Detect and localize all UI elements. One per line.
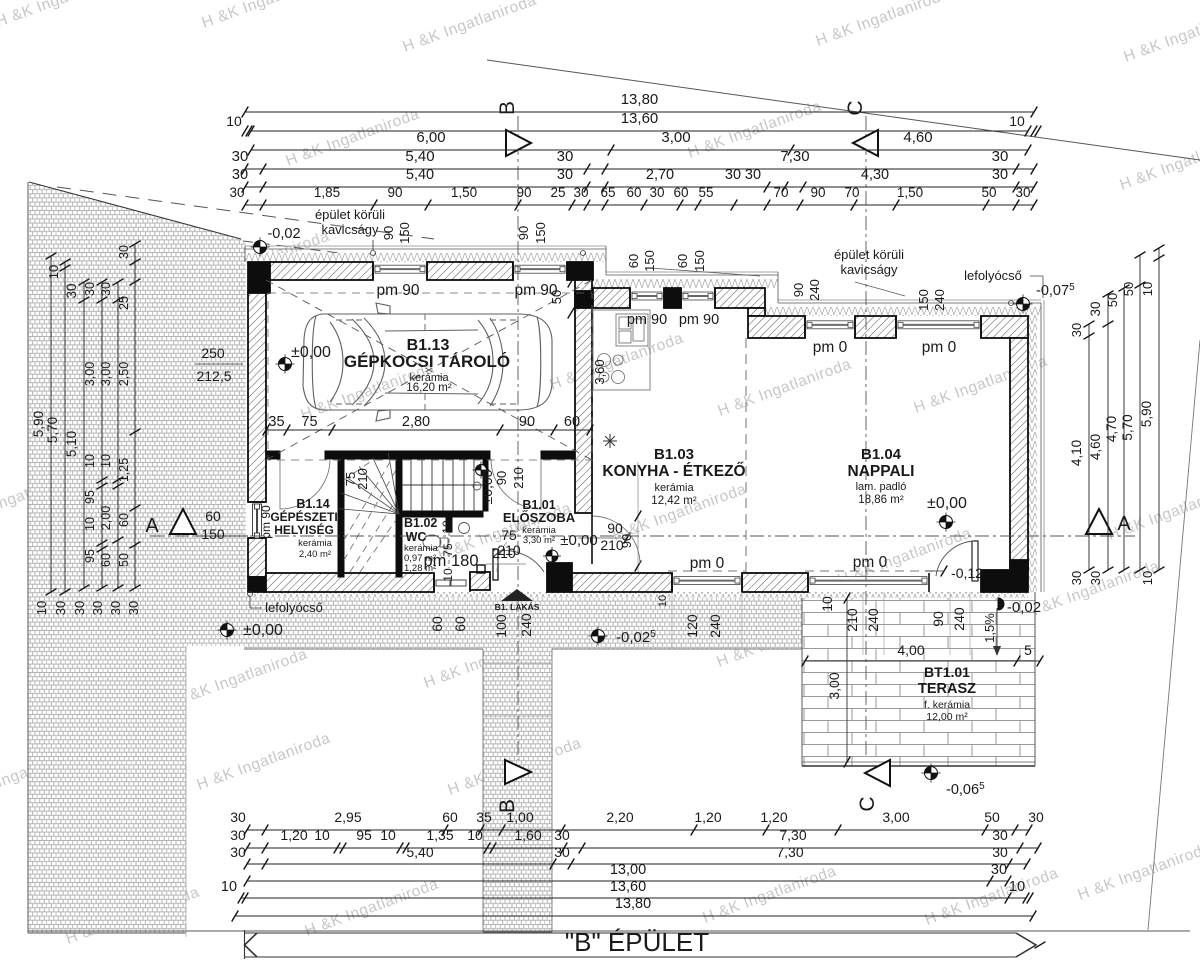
- step wall kitchen-living: [748, 308, 765, 316]
- kitchen cabinet edge line: [637, 462, 639, 572]
- left area boundary lines: [29, 182, 241, 239]
- svg-text:BT1.01: BT1.01: [924, 664, 970, 680]
- svg-text:150: 150: [642, 250, 657, 272]
- svg-text:4,30: 4,30: [861, 167, 889, 183]
- svg-text:1,60: 1,60: [514, 827, 541, 843]
- svg-text:pm 90: pm 90: [376, 282, 419, 299]
- svg-text:60: 60: [452, 616, 468, 632]
- svg-text:3,00: 3,00: [826, 672, 842, 699]
- svg-text:5,40: 5,40: [406, 167, 434, 183]
- svg-text:2,70: 2,70: [646, 167, 674, 183]
- svg-text:TERASZ: TERASZ: [918, 681, 976, 697]
- svg-text:10: 10: [819, 596, 835, 612]
- svg-text:10: 10: [46, 265, 61, 279]
- car: [303, 303, 552, 421]
- svg-text:30: 30: [1028, 809, 1044, 825]
- svg-text:60: 60: [626, 254, 641, 268]
- terrace paving (big brick texture): [802, 592, 1035, 766]
- entrance sidelight pm180: [433, 573, 435, 592]
- svg-text:13,00: 13,00: [610, 862, 646, 878]
- garage interior dimension chain: [266, 429, 590, 431]
- svg-text:±0,00: ±0,00: [927, 495, 967, 512]
- svg-text:B1.14: B1.14: [296, 497, 329, 511]
- svg-text:90: 90: [381, 226, 396, 240]
- svg-text:épület körüli: épület körüli: [834, 247, 904, 262]
- projection lines terrace: [862, 592, 864, 655]
- svg-text:90: 90: [494, 471, 509, 485]
- svg-text:50: 50: [1121, 282, 1136, 296]
- svg-text:3,00: 3,00: [882, 809, 909, 825]
- svg-text:4,60: 4,60: [1088, 434, 1103, 460]
- svg-text:lefolyócső: lefolyócső: [265, 600, 323, 615]
- svg-text:1,5%: 1,5%: [982, 613, 997, 643]
- svg-text:WC: WC: [406, 530, 427, 544]
- top dimension chains: [245, 111, 1034, 113]
- svg-text:10: 10: [440, 520, 454, 534]
- stairwell right wall: [483, 459, 488, 511]
- svg-text:GÉPKOCSI TÁROLÓ: GÉPKOCSI TÁROLÓ: [344, 352, 510, 371]
- garage left exterior wall: [248, 293, 266, 502]
- svg-text:150: 150: [916, 289, 931, 311]
- toilet: [423, 535, 441, 549]
- svg-text:10: 10: [380, 827, 396, 843]
- svg-text:60: 60: [673, 185, 688, 200]
- bottom exterior wall: lower-left block: [266, 573, 434, 592]
- svg-text:10: 10: [99, 454, 113, 468]
- elevation marker eloszoba +-0,00: [543, 547, 561, 565]
- svg-text:1,35: 1,35: [426, 827, 453, 843]
- svg-text:30: 30: [53, 601, 68, 615]
- svg-text:30: 30: [232, 167, 248, 183]
- WC right wall: [446, 517, 452, 532]
- svg-text:30: 30: [126, 601, 141, 615]
- svg-text:pm 0: pm 0: [922, 339, 957, 356]
- svg-text:2,00: 2,00: [99, 506, 113, 530]
- svg-text:60: 60: [99, 553, 113, 567]
- entrance walkway: [483, 594, 552, 932]
- svg-text:-0,02: -0,02: [267, 226, 300, 242]
- kitchen-living axis dashed: [745, 338, 747, 572]
- svg-text:30: 30: [557, 167, 573, 183]
- svg-text:10: 10: [441, 568, 455, 582]
- hallway bottom window (pm 0): [671, 573, 673, 592]
- svg-text:30: 30: [230, 827, 246, 843]
- svg-text:10: 10: [1009, 879, 1025, 895]
- svg-text:10: 10: [314, 827, 330, 843]
- elevation marker bottom +-0,00: [218, 621, 237, 640]
- under-stair dashed lines in gepeszeti: [344, 462, 396, 572]
- svg-text:30: 30: [1088, 301, 1103, 316]
- svg-text:pm 0: pm 0: [853, 554, 888, 571]
- svg-text:120: 120: [684, 614, 700, 638]
- svg-text:75: 75: [501, 527, 517, 543]
- svg-text:30: 30: [232, 148, 249, 165]
- svg-text:50: 50: [981, 185, 996, 200]
- svg-text:240: 240: [807, 279, 822, 301]
- svg-text:7,30: 7,30: [776, 844, 803, 860]
- svg-text:30: 30: [992, 844, 1008, 860]
- elevation marker nappali +-0,00: [937, 513, 956, 532]
- svg-text:25: 25: [550, 185, 565, 200]
- svg-text:210: 210: [844, 608, 860, 632]
- svg-text:35: 35: [268, 414, 284, 430]
- garage dashed perimeter: [268, 293, 592, 460]
- boiler symbol (snowflake): [603, 434, 617, 448]
- svg-text:kavicságy: kavicságy: [321, 222, 379, 237]
- garage window 1 (pm 90): [372, 262, 374, 280]
- svg-text:KONYHA - ÉTKEZŐ: KONYHA - ÉTKEZŐ: [602, 462, 745, 480]
- dashed site boundary continuing to building corner: [57, 187, 434, 239]
- elevation marker top-left -0,02: [251, 238, 270, 257]
- svg-text:70: 70: [844, 185, 859, 200]
- kitchen counter with sink: [593, 310, 650, 390]
- svg-text:210: 210: [497, 542, 521, 558]
- garage window 2 (pm 90): [512, 262, 514, 280]
- svg-text:240: 240: [707, 614, 723, 638]
- svg-text:30: 30: [83, 282, 97, 296]
- svg-text:30: 30: [229, 185, 244, 200]
- svg-text:A: A: [145, 515, 159, 537]
- svg-text:1,20: 1,20: [760, 809, 787, 825]
- svg-text:30: 30: [230, 844, 246, 860]
- svg-text:12,00 m²: 12,00 m²: [926, 711, 968, 723]
- svg-text:10: 10: [657, 595, 669, 607]
- section marker B top: [506, 130, 531, 156]
- gravel strip below building: [244, 594, 802, 649]
- svg-text:5,70: 5,70: [1120, 414, 1135, 440]
- right dimension chains: [1088, 324, 1090, 570]
- svg-text:30: 30: [64, 283, 79, 298]
- svg-text:30: 30: [99, 282, 113, 296]
- svg-text:150: 150: [397, 222, 412, 244]
- door hall->eloszoba swing: [491, 459, 541, 509]
- svg-text:1,20: 1,20: [280, 827, 307, 843]
- kitchen window 1 (pm 90): [629, 288, 631, 308]
- svg-text:30: 30: [90, 601, 105, 615]
- svg-text:250: 250: [201, 345, 225, 361]
- svg-text:4,10: 4,10: [1069, 440, 1084, 466]
- bottom dimension chains: [247, 829, 1029, 831]
- garage top wall: [266, 262, 373, 280]
- svg-text:13,60: 13,60: [610, 879, 646, 895]
- svg-text:2,95: 2,95: [334, 809, 361, 825]
- section marker A right: [1086, 509, 1112, 534]
- svg-text:60: 60: [675, 254, 690, 268]
- svg-text:1,50: 1,50: [897, 185, 923, 200]
- svg-text:±0,00: ±0,00: [291, 344, 331, 361]
- svg-text:1,00: 1,00: [506, 809, 533, 825]
- svg-text:-0,02: -0,02: [1007, 599, 1041, 616]
- svg-text:lam. padló: lam. padló: [856, 481, 907, 493]
- kitchen window 2 (pm 90): [680, 288, 682, 308]
- svg-text:90: 90: [930, 611, 946, 627]
- entrance door leaf and swing: [493, 549, 498, 580]
- svg-text:50: 50: [1105, 293, 1120, 307]
- svg-text:10: 10: [467, 827, 483, 843]
- svg-text:pm 0: pm 0: [690, 555, 725, 572]
- svg-text:1,50: 1,50: [451, 185, 477, 200]
- svg-text:10: 10: [1140, 282, 1155, 296]
- living room terrace door leaf and swing: [972, 541, 978, 581]
- svg-text:30: 30: [1069, 571, 1084, 585]
- svg-text:30: 30: [725, 167, 741, 183]
- svg-text:30: 30: [992, 148, 1009, 165]
- svg-text:±0,00: ±0,00: [243, 622, 283, 639]
- svg-text:kavicságy: kavicságy: [840, 262, 898, 277]
- svg-text:4,60: 4,60: [903, 129, 932, 146]
- entrance pillar: [470, 572, 490, 590]
- svg-text:90: 90: [519, 414, 535, 430]
- svg-text:90: 90: [516, 185, 531, 200]
- strip above kitchen: [593, 279, 778, 288]
- section line A horizontal: [150, 535, 1135, 537]
- svg-text:pm 0: pm 0: [813, 339, 848, 356]
- left dimension chains: [50, 256, 52, 592]
- svg-text:5,90: 5,90: [1139, 401, 1154, 427]
- svg-text:240: 240: [518, 613, 534, 637]
- svg-text:90: 90: [516, 226, 531, 240]
- svg-text:±0,00: ±0,00: [560, 532, 597, 549]
- terrace dim 4,00/5: [805, 660, 1040, 662]
- svg-text:4,00: 4,00: [897, 642, 924, 658]
- svg-text:6,00: 6,00: [416, 129, 445, 146]
- svg-text:7,30: 7,30: [780, 148, 809, 165]
- svg-text:-0,025: -0,025: [616, 629, 656, 646]
- wall between gepeszeti and stairs: [338, 459, 344, 577]
- svg-text:30: 30: [72, 601, 87, 615]
- garage top-left corner pillar: [248, 262, 270, 293]
- svg-text:kerámia: kerámia: [654, 482, 694, 494]
- svg-text:f. kerámia: f. kerámia: [924, 699, 970, 711]
- strip above living room: [765, 307, 1041, 316]
- svg-text:25: 25: [117, 296, 131, 310]
- svg-text:1,20: 1,20: [694, 809, 721, 825]
- svg-text:B1.03: B1.03: [654, 446, 694, 463]
- svg-text:30: 30: [554, 827, 570, 843]
- svg-text:150: 150: [201, 526, 225, 542]
- B1 LAKAS entrance arrow: [501, 589, 533, 601]
- svg-text:60: 60: [626, 185, 641, 200]
- strip right of living room: [1028, 316, 1037, 592]
- svg-text:GÉPÉSZETI: GÉPÉSZETI: [270, 509, 337, 524]
- insulation strip below bottom wall: [248, 592, 1028, 598]
- living window 2 (pm 0): [895, 316, 897, 338]
- svg-text:212,5: 212,5: [196, 368, 231, 384]
- svg-text:pm 90: pm 90: [679, 312, 719, 328]
- living room right exterior wall: [1010, 338, 1028, 570]
- svg-text:60: 60: [442, 809, 458, 825]
- terrace dim 3,00 vertical: [846, 598, 848, 762]
- svg-text:2,20: 2,20: [606, 809, 633, 825]
- svg-text:30: 30: [991, 862, 1007, 878]
- stair treads: [402, 459, 483, 511]
- svg-text:C: C: [856, 796, 879, 811]
- svg-text:pm 90: pm 90: [259, 505, 273, 539]
- svg-text:3,30 m²: 3,30 m²: [523, 535, 555, 546]
- svg-text:30: 30: [745, 167, 761, 183]
- svg-text:12,42 m²: 12,42 m²: [651, 495, 697, 507]
- svg-text:240: 240: [865, 608, 881, 632]
- section marker B bottom: [505, 760, 531, 784]
- svg-text:5,90: 5,90: [31, 411, 46, 437]
- svg-text:240: 240: [932, 289, 947, 311]
- svg-text:HELYISÉG: HELYISÉG: [274, 522, 334, 537]
- washbasin: [459, 523, 470, 534]
- svg-text:5,40: 5,40: [406, 844, 433, 860]
- svg-text:-0,12: -0,12: [951, 565, 983, 581]
- stair winder fan: [337, 453, 399, 514]
- cooktop: [598, 354, 625, 384]
- svg-text:10: 10: [1140, 571, 1155, 585]
- wall between stairs and WC: [396, 459, 402, 577]
- svg-text:150: 150: [692, 250, 707, 272]
- garage bottom dividing wall: [266, 451, 280, 459]
- svg-text:18,86 m²: 18,86 m²: [858, 494, 904, 506]
- svg-text:30: 30: [649, 185, 664, 200]
- svg-text:3,00: 3,00: [661, 129, 690, 146]
- svg-text:60: 60: [117, 513, 131, 527]
- svg-text:5: 5: [1024, 642, 1032, 658]
- svg-text:5,10: 5,10: [64, 431, 79, 457]
- svg-text:50: 50: [117, 553, 131, 567]
- bottom wall under hallway/kitchen: [572, 573, 672, 592]
- living room top wall: [748, 316, 805, 338]
- svg-text:10: 10: [34, 601, 49, 615]
- living window 1 (pm 0): [804, 316, 806, 338]
- svg-text:30: 30: [554, 844, 570, 860]
- svg-text:50: 50: [549, 290, 564, 304]
- section line B vertical: [517, 116, 519, 760]
- svg-text:60: 60: [429, 616, 445, 632]
- garage dashed diagonals: [266, 280, 592, 460]
- svg-text:90: 90: [387, 185, 402, 200]
- section line C vertical: [865, 116, 867, 758]
- svg-text:4,70: 4,70: [1104, 416, 1119, 442]
- svg-text:pm 90: pm 90: [627, 312, 667, 328]
- svg-text:kerámia: kerámia: [298, 538, 333, 549]
- kitchen top wall: [593, 288, 630, 308]
- svg-text:90: 90: [810, 185, 825, 200]
- svg-text:240: 240: [951, 607, 967, 631]
- svg-text:70: 70: [773, 185, 788, 200]
- svg-text:30: 30: [1088, 571, 1103, 585]
- svg-text:10: 10: [221, 879, 237, 895]
- site boundary diagonal top: [487, 60, 1200, 160]
- svg-text:épület körüli: épület körüli: [315, 207, 385, 222]
- svg-text:2,50: 2,50: [117, 362, 131, 386]
- svg-text:10: 10: [226, 113, 242, 129]
- svg-text:ELŐSZOBA: ELŐSZOBA: [503, 510, 576, 525]
- svg-text:NAPPALI: NAPPALI: [848, 463, 915, 480]
- elevation marker top-right -0,07(5): [1014, 295, 1033, 314]
- svg-text:2,40 m²: 2,40 m²: [299, 549, 331, 560]
- svg-text:30: 30: [573, 185, 588, 200]
- bottom-right corner pillar: [981, 570, 1010, 592]
- svg-text:5,70: 5,70: [45, 417, 60, 443]
- svg-text:B1.02: B1.02: [404, 516, 437, 530]
- door eloszoba->kitchen swing: [592, 516, 640, 564]
- section marker A left: [170, 509, 196, 534]
- svg-text:B: B: [496, 101, 519, 115]
- svg-text:3,00: 3,00: [83, 362, 97, 386]
- elevation marker bottom -0,02(5): [589, 627, 608, 646]
- bottom-left corner pillar: [248, 577, 266, 592]
- elevation marker stairs +-0,00 rotated: [473, 462, 490, 479]
- svg-text:50: 50: [984, 809, 1000, 825]
- svg-text:100: 100: [493, 614, 509, 638]
- entrance swing dashed: [497, 521, 548, 572]
- svg-text:30: 30: [108, 601, 123, 615]
- svg-text:60: 60: [564, 414, 580, 430]
- svg-text:210: 210: [355, 468, 370, 490]
- svg-text:30: 30: [230, 809, 246, 825]
- svg-text:210: 210: [600, 537, 624, 553]
- svg-text:10: 10: [1009, 113, 1025, 129]
- gravel/insulation strip above garage: [245, 253, 606, 262]
- svg-text:150: 150: [533, 222, 548, 244]
- svg-text:210: 210: [511, 467, 526, 489]
- svg-text:75: 75: [441, 543, 455, 557]
- svg-text:90: 90: [791, 283, 806, 297]
- svg-text:30: 30: [1015, 185, 1030, 200]
- svg-text:30: 30: [992, 167, 1008, 183]
- pm0 dashed parapet lines bottom: [668, 570, 745, 572]
- svg-text:95: 95: [83, 490, 97, 504]
- svg-text:"B" ÉPÜLET: "B" ÉPÜLET: [565, 927, 709, 957]
- living bottom sliding window (pm 0): [807, 573, 809, 592]
- svg-text:±0,00: ±0,00: [479, 469, 495, 504]
- entrance right pillar: [547, 563, 572, 592]
- svg-text:16,20 m²: 16,20 m²: [406, 382, 452, 394]
- svg-text:35: 35: [476, 809, 492, 825]
- svg-text:3,00: 3,00: [99, 362, 113, 386]
- svg-text:B1. LAKÁS: B1. LAKÁS: [495, 602, 540, 612]
- svg-text:55: 55: [698, 185, 713, 200]
- site boundary right slanted: [1148, 340, 1200, 930]
- svg-text:2,80: 2,80: [402, 414, 430, 430]
- svg-text:10: 10: [83, 517, 97, 531]
- section marker C bottom: [865, 760, 890, 786]
- garage / kitchen dividing wall: [575, 280, 592, 513]
- svg-text:13,80: 13,80: [615, 896, 651, 912]
- svg-text:95: 95: [83, 549, 97, 563]
- svg-text:65: 65: [600, 185, 615, 200]
- svg-text:90: 90: [607, 520, 623, 536]
- left neighbouring paved area (small brick texture): [28, 182, 246, 933]
- svg-text:lefolyócső: lefolyócső: [964, 268, 1022, 283]
- svg-text:10: 10: [83, 454, 97, 468]
- svg-text:60: 60: [205, 508, 221, 524]
- svg-text:1,25: 1,25: [117, 458, 131, 482]
- door garage->gepeszeti swing: [280, 459, 330, 509]
- svg-text:7,30: 7,30: [779, 827, 806, 843]
- svg-text:95: 95: [356, 827, 372, 843]
- svg-text:1,85: 1,85: [314, 185, 340, 200]
- svg-text:30: 30: [557, 148, 574, 165]
- svg-text:13,60: 13,60: [621, 110, 659, 127]
- svg-text:30: 30: [1069, 323, 1084, 337]
- svg-text:13,80: 13,80: [621, 91, 659, 108]
- svg-text:30: 30: [992, 827, 1008, 843]
- WC top wall: [402, 511, 483, 517]
- svg-text:3,60: 3,60: [592, 359, 607, 384]
- svg-text:30: 30: [117, 245, 131, 259]
- title banner "B" EPULET: [28, 930, 1190, 932]
- elevation marker garage +-0,00: [276, 355, 295, 374]
- gepeszeti left wall window (pm 90) vertical: [248, 501, 266, 503]
- svg-text:5,40: 5,40: [405, 148, 434, 165]
- section marker C top: [853, 130, 878, 156]
